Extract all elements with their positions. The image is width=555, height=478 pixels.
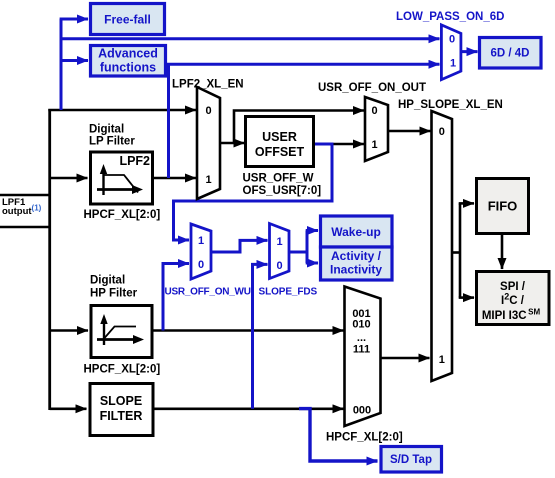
svg-text:HPCF_XL[2:0]: HPCF_XL[2:0] (84, 209, 161, 221)
wire: tee vertical (306, 231, 309, 264)
svg-text:FIFO: FIFO (488, 199, 518, 214)
svg-text:functions: functions (100, 61, 156, 75)
svg-text:USR_OFF_ON_WU: USR_OFF_ON_WU (165, 287, 251, 298)
block: Wake-up (321, 216, 393, 247)
svg-text:SLOPE_FDS: SLOPE_FDS (259, 287, 318, 298)
mux HP_SLOPE_XL_EN (432, 111, 453, 381)
block: FIFO (477, 179, 529, 234)
wire: LPF1 output upper stub line (0, 194, 51, 197)
svg-text:0: 0 (439, 126, 445, 138)
svg-text:0: 0 (371, 105, 377, 117)
svg-text:Wake-up: Wake-up (331, 225, 381, 239)
wire: branch to HP filter box (50, 329, 88, 332)
block: 6D/4D (480, 38, 542, 69)
block: HP filter (91, 306, 152, 358)
svg-text:FILTER: FILTER (100, 409, 143, 423)
svg-text:HP Filter: HP Filter (90, 288, 138, 300)
svg-text:OFFSET: OFFSET (255, 145, 305, 159)
svg-text:0: 0 (449, 34, 455, 46)
wire: arrow into Activity/Inactivity (306, 262, 318, 265)
mux LOW_PASS_ON_6D (441, 25, 461, 80)
wire: LPF2_XL_EN mux output to USER OFFSET (220, 142, 245, 145)
wire: SLOPE_FDS output tee (289, 251, 307, 254)
svg-text:Advanced: Advanced (98, 47, 158, 61)
wire: blue vertical trunk to Free-fall / Advanced functions (60, 19, 63, 110)
mux HPCF_XL[2:0] selector (345, 287, 381, 427)
svg-text:0: 0 (276, 260, 282, 272)
svg-text:LPF2_XL_EN: LPF2_XL_EN (172, 79, 244, 91)
svg-text:1: 1 (198, 235, 204, 247)
svg-text:USR_OFF_W: USR_OFF_W (243, 173, 314, 185)
svg-text:USER: USER (262, 130, 297, 144)
svg-text:HPCF_XL[2:0]: HPCF_XL[2:0] (326, 432, 403, 444)
wire: HP_SLOPE_XL_EN mux output junction (452, 251, 460, 254)
wire: bypass tee up from mux output (234, 111, 364, 144)
block: Advanced functions (91, 46, 166, 77)
svg-text:1: 1 (276, 236, 282, 248)
wire: arrow into Wake-up (306, 229, 318, 232)
svg-text:output(1): output(1) (2, 204, 42, 218)
wire: blue tap from LPF2 output down (167, 63, 170, 178)
wire: blue arrow into Free-fall (60, 18, 88, 21)
wire: USER OFFSET output to USR_OFF_ON_OUT mux input 1 (332, 143, 364, 146)
svg-text:SLOPE: SLOPE (100, 394, 142, 408)
block: LPF2 filter (91, 152, 153, 204)
wire: blue tap from SLOPE output to SLOPE_FDS input 0 (253, 264, 268, 408)
wire: blue from USER OFFSET output down to wake-up path (174, 144, 333, 240)
svg-text:010: 010 (352, 319, 370, 331)
svg-text:...: ... (357, 332, 366, 344)
svg-text:Free-fall: Free-fall (104, 13, 151, 27)
wire: USR_OFF_ON_OUT mux output to HP_SLOPE_XL_EN mux input 0 (388, 130, 431, 133)
wire: FIFO to SPI (501, 234, 504, 269)
block: Activity / Inactivity (321, 247, 393, 280)
svg-text:1: 1 (371, 139, 377, 151)
mux USR_OFF_ON_WU (191, 224, 211, 279)
svg-text:LOW_PASS_ON_6D: LOW_PASS_ON_6D (396, 11, 504, 23)
svg-text:1: 1 (450, 58, 456, 70)
wire: blue arrow into Advanced functions (60, 59, 88, 62)
svg-text:0: 0 (205, 105, 211, 117)
wire: HPCF mux output to HP_SLOPE_XL_EN mux input 1 (381, 357, 430, 360)
block: USER OFFSET (246, 117, 314, 167)
svg-text:USR_OFF_ON_OUT: USR_OFF_ON_OUT (318, 82, 426, 94)
wire: branch to SLOPE FILTER box (50, 407, 87, 410)
svg-text:Activity /: Activity / (331, 249, 382, 263)
svg-text:HP_SLOPE_XL_EN: HP_SLOPE_XL_EN (398, 99, 503, 111)
mux USR_OFF_ON_OUT (365, 97, 388, 161)
wire: blue line to LOW_PASS_ON_6D mux input 1 (167, 63, 440, 66)
svg-text:Digital: Digital (89, 124, 124, 136)
mux LPF2_XL_EN (197, 87, 220, 199)
wire: arrow into SPI (459, 296, 474, 299)
mux SLOPE_FDS (270, 224, 290, 279)
wire: trunk top branch to LPF2_XL_EN mux input 0 (48, 109, 196, 112)
svg-text:LPF2: LPF2 (119, 154, 150, 168)
wire: main vertical trunk (48, 109, 51, 410)
wire: HP filter output to HPCF mux upper input (154, 329, 344, 332)
wire: LPF1 output line into trunk (0, 226, 51, 229)
block: SPI / I2C / MIPI I3C (477, 272, 550, 325)
wire: LOW_PASS_ON_6D mux output to 6D/4D (461, 50, 478, 53)
wire: USR_OFF_ON_WU output to SLOPE_FDS input 1 (211, 240, 268, 252)
block: Free-fall (91, 4, 165, 35)
svg-text:S/D Tap: S/D Tap (390, 454, 432, 466)
wire: blue tap to S/D Tap (299, 409, 378, 461)
svg-text:Inactivity: Inactivity (330, 263, 382, 277)
svg-text:0: 0 (198, 259, 204, 271)
block: S/D Tap (381, 447, 442, 473)
svg-text:Digital: Digital (90, 275, 125, 287)
svg-text:LP Filter: LP Filter (89, 136, 135, 148)
svg-text:111: 111 (353, 344, 370, 356)
wire: LPF2 box output to LPF2_XL_EN mux input 1 (153, 177, 196, 180)
svg-text:000: 000 (353, 405, 371, 417)
wire: blue line to LOW_PASS_ON_6D mux input 0 (60, 37, 440, 40)
wire: SLOPE FILTER output to HPCF mux lower input (153, 407, 344, 410)
svg-text:OFS_USR[7:0]: OFS_USR[7:0] (243, 185, 322, 197)
svg-text:6D / 4D: 6D / 4D (491, 48, 530, 60)
wire: arrow into FIFO (459, 202, 474, 205)
wire: branch to LPF2 filter box (50, 177, 88, 180)
block: SLOPE FILTER (90, 384, 153, 436)
svg-text:1: 1 (439, 354, 445, 366)
wire: blue tap from HP filter output to USR_OFF_ON_WU input 0 (163, 264, 189, 331)
svg-text:1: 1 (205, 174, 211, 186)
wire: output junction vertical (459, 203, 462, 297)
svg-text:HPCF_XL[2:0]: HPCF_XL[2:0] (84, 364, 161, 376)
